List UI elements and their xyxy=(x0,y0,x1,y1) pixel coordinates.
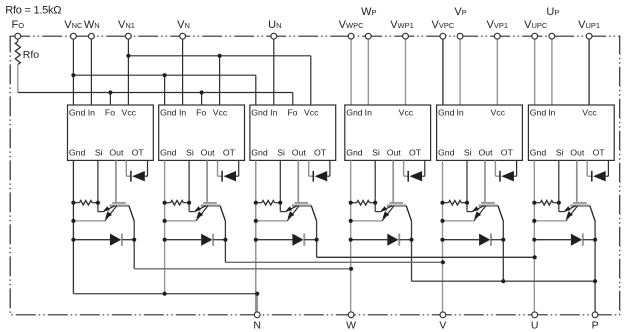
wire emitter cell 1 xyxy=(73,220,104,222)
svg-text:In: In xyxy=(548,107,555,117)
svg-text:VUP1: VUP1 xyxy=(578,19,600,31)
wire gate drive cell 5 xyxy=(484,160,486,202)
diode D6t OT xyxy=(587,160,608,181)
wire N bus xyxy=(73,293,257,295)
label VWP1 xyxy=(390,19,414,31)
svg-text:VWP1: VWP1 xyxy=(390,19,414,31)
wire WP vertical xyxy=(367,39,369,105)
wire Fo bus xyxy=(18,92,293,94)
svg-text:Gnd: Gnd xyxy=(438,107,455,117)
svg-text:Out: Out xyxy=(478,148,493,158)
svg-text:U: U xyxy=(531,320,539,332)
terminal VWP1 xyxy=(403,33,409,39)
svg-text:VN1: VN1 xyxy=(118,19,135,31)
svg-text:VVP1: VVP1 xyxy=(487,19,509,31)
label VNC xyxy=(64,19,83,31)
wire UP vertical xyxy=(551,39,553,105)
label V xyxy=(439,320,446,332)
wire gate drive cell 4 xyxy=(392,160,394,202)
wire Rfo to Fo bus xyxy=(17,65,19,93)
wire VN input xyxy=(182,39,184,105)
diode D3t OT xyxy=(309,160,330,181)
op-amp U5 gate driver (P-side) xyxy=(437,105,523,160)
wire gate drive cell 3 xyxy=(297,160,299,202)
svg-text:Si: Si xyxy=(556,148,564,158)
wire VVP1 vertical xyxy=(496,39,498,105)
terminal VVP1 xyxy=(494,33,500,39)
terminal N xyxy=(254,312,260,318)
wire Fo pin stub U2 xyxy=(201,93,203,106)
svg-text:VN: VN xyxy=(177,19,190,31)
svg-text:In: In xyxy=(88,107,95,117)
wire P bus (node P) xyxy=(412,280,596,282)
terminal VUP1 xyxy=(586,33,592,39)
terminal VN xyxy=(180,33,186,39)
wire V bus (node V) xyxy=(225,261,443,263)
wire UN input xyxy=(273,39,275,105)
svg-text:Gnd: Gnd xyxy=(160,107,177,117)
svg-text:In: In xyxy=(456,107,463,117)
junction VNC bus xyxy=(71,73,166,77)
terminal P xyxy=(592,312,598,318)
svg-text:N: N xyxy=(253,320,261,332)
junctions cell 1 xyxy=(71,201,136,242)
wire Si pin cell 2 xyxy=(189,160,195,211)
resistor R1 sense xyxy=(73,200,98,205)
diode D1 freewheel xyxy=(73,234,134,246)
svg-text:OT: OT xyxy=(132,148,145,158)
svg-text:Fo: Fo xyxy=(105,107,115,117)
svg-text:OT: OT xyxy=(223,148,236,158)
diode D4t OT xyxy=(404,160,425,181)
label N xyxy=(253,320,261,332)
wire collector cell 1 xyxy=(133,221,135,269)
terminal VNC xyxy=(71,33,77,39)
svg-text:Si: Si xyxy=(277,148,285,158)
wire N stub to terminal xyxy=(256,294,258,315)
svg-text:Vcc: Vcc xyxy=(490,107,505,117)
wire emitter cell 2 xyxy=(165,220,196,222)
svg-text:Gnd: Gnd xyxy=(160,148,177,158)
terminal UN xyxy=(271,33,277,39)
transistor Q4 IGBT xyxy=(381,203,412,221)
wire VP vertical xyxy=(459,39,461,105)
wire emitter cell 5 xyxy=(443,220,474,222)
wire gate drive cell 6 xyxy=(576,160,578,202)
svg-text:Gnd: Gnd xyxy=(346,148,363,158)
wire collector cell 2 xyxy=(224,221,226,262)
svg-text:V: V xyxy=(439,320,446,332)
svg-text:WP: WP xyxy=(361,6,376,18)
diode D5t OT xyxy=(495,160,516,181)
label WP xyxy=(361,6,376,18)
resistor R6 sense xyxy=(534,200,559,205)
terminal UP xyxy=(549,33,555,39)
svg-text:In: In xyxy=(270,107,277,117)
svg-text:VWPC: VWPC xyxy=(339,19,364,31)
svg-text:Gnd: Gnd xyxy=(346,107,363,117)
terminal VP xyxy=(457,33,463,39)
svg-text:In: In xyxy=(179,107,186,117)
transistor Q2 IGBT xyxy=(195,203,226,221)
label P xyxy=(592,320,599,332)
diode D2t OT xyxy=(218,160,239,181)
junctions cell 4 xyxy=(349,201,414,242)
wire collector cell 6 xyxy=(594,221,596,315)
svg-text:Vcc: Vcc xyxy=(582,107,597,117)
label VN1 xyxy=(118,19,135,31)
wire VVPC vertical xyxy=(442,39,444,105)
svg-text:VP: VP xyxy=(454,6,466,18)
resistor R5 sense xyxy=(443,200,468,205)
wire Si pin cell 1 xyxy=(98,160,104,211)
svg-text:UN: UN xyxy=(268,19,281,31)
junctions cell 2 xyxy=(163,201,228,242)
junction Fo bus xyxy=(108,90,203,94)
wire Gnd pin stub U3 xyxy=(255,75,257,105)
op-amp U6 gate driver (P-side) xyxy=(528,105,614,160)
terminal V xyxy=(440,312,446,318)
svg-text:Out: Out xyxy=(109,148,124,158)
wire emitter rail cell 3 xyxy=(255,160,257,314)
svg-text:Vcc: Vcc xyxy=(399,107,414,117)
label UP xyxy=(546,6,559,18)
svg-text:Gnd: Gnd xyxy=(251,107,268,117)
wire collector cell 4 xyxy=(411,221,413,281)
wire Si pin cell 6 xyxy=(559,160,565,211)
svg-text:Gnd: Gnd xyxy=(530,148,547,158)
wire VWP1 vertical xyxy=(405,39,407,105)
wire Si pin cell 3 xyxy=(280,160,286,211)
transistor Q6 IGBT xyxy=(564,203,595,221)
svg-text:VNC: VNC xyxy=(64,19,83,31)
wire VN1 vertical xyxy=(127,39,129,105)
wire gate drive cell 1 xyxy=(115,160,117,202)
wire emitter rail cell 1 xyxy=(72,160,74,293)
label VVPC xyxy=(432,19,455,31)
junction W bus xyxy=(349,267,353,271)
wire U bus (node U) xyxy=(317,256,535,258)
wire Fo terminal to Rfo xyxy=(17,39,19,42)
svg-text:WN: WN xyxy=(84,19,100,31)
label VN xyxy=(177,19,190,31)
wire collector cell 5 xyxy=(502,221,504,281)
diode D1t OT xyxy=(126,160,147,181)
wire W bus (node W) xyxy=(134,268,351,270)
svg-text:OT: OT xyxy=(314,148,327,158)
junction N bus xyxy=(163,292,260,296)
svg-text:Si: Si xyxy=(186,148,194,158)
op-amp U1 gate driver (N-side) xyxy=(68,105,154,160)
wire Gnd pin stub U2 xyxy=(164,75,166,105)
terminal Fo xyxy=(15,33,21,39)
wire emitter cell 3 xyxy=(256,220,287,222)
label WN xyxy=(84,19,100,31)
svg-text:UP: UP xyxy=(546,6,559,18)
svg-text:Rfo: Rfo xyxy=(23,49,40,61)
svg-text:Vcc: Vcc xyxy=(213,107,228,117)
transistor Q1 IGBT xyxy=(103,203,134,221)
svg-text:Fo: Fo xyxy=(287,107,297,117)
svg-text:Out: Out xyxy=(201,148,216,158)
label VWPC xyxy=(339,19,364,31)
junctions cell 5 xyxy=(440,201,505,242)
terminal VVPC xyxy=(440,33,446,39)
diode D3 freewheel xyxy=(256,234,317,246)
terminal U xyxy=(532,312,538,318)
wire WN input xyxy=(90,39,92,105)
wire VWPC vertical xyxy=(350,39,352,105)
label VUP1 xyxy=(578,19,600,31)
wire Fo pin stub U3 xyxy=(292,93,294,106)
label Rfo value xyxy=(5,5,61,17)
resistor R4 sense xyxy=(351,200,376,205)
label W xyxy=(346,320,356,332)
svg-text:Si: Si xyxy=(95,148,103,158)
svg-text:OT: OT xyxy=(501,148,514,158)
diode D6 freewheel xyxy=(534,234,595,246)
terminal VN1 xyxy=(125,33,131,39)
resistor R2 sense xyxy=(165,200,190,205)
op-amp U3 gate driver (N-side) xyxy=(250,105,336,160)
transistor Q5 IGBT xyxy=(472,203,503,221)
label UN xyxy=(268,19,281,31)
svg-text:In: In xyxy=(365,107,372,117)
svg-text:Out: Out xyxy=(570,148,585,158)
terminal W xyxy=(348,312,354,318)
svg-text:FO: FO xyxy=(12,19,25,31)
wire Vcc pin stub U2 xyxy=(219,56,221,105)
wire emitter rail cell 4 xyxy=(350,160,352,314)
wire Si pin cell 4 xyxy=(375,160,381,211)
transistor Q3 IGBT xyxy=(286,203,317,221)
svg-text:Gnd: Gnd xyxy=(69,107,86,117)
resistor R3 sense xyxy=(256,200,280,205)
wire VNC bus xyxy=(73,74,255,76)
svg-text:Gnd: Gnd xyxy=(69,148,86,158)
label VUPC xyxy=(524,19,548,31)
wire collector cell 3 xyxy=(316,221,318,257)
wire VNC vertical xyxy=(72,39,74,105)
wire emitter cell 6 xyxy=(534,220,565,222)
wire VN1 bus xyxy=(128,55,310,57)
svg-text:Fo: Fo xyxy=(196,107,206,117)
junction U bus xyxy=(533,255,537,259)
svg-text:Gnd: Gnd xyxy=(438,148,455,158)
junctions cell 3 xyxy=(254,201,319,242)
svg-text:Gnd: Gnd xyxy=(251,148,268,158)
svg-text:Rfo = 1.5kΩ: Rfo = 1.5kΩ xyxy=(5,5,61,17)
label Fo xyxy=(12,19,25,31)
label VVP1 xyxy=(487,19,509,31)
wire VUP1 vertical xyxy=(588,39,590,105)
svg-text:VVPC: VVPC xyxy=(432,19,455,31)
wire Fo pin stub U1 xyxy=(109,93,111,106)
terminal VUPC xyxy=(532,33,538,39)
svg-text:W: W xyxy=(346,320,356,332)
svg-text:Si: Si xyxy=(372,148,380,158)
wire Vcc pin stub U3 xyxy=(310,56,312,105)
svg-text:Out: Out xyxy=(292,148,307,158)
svg-text:Gnd: Gnd xyxy=(530,107,547,117)
wire Si pin cell 5 xyxy=(467,160,473,211)
junction V bus xyxy=(441,260,445,264)
diode D4 freewheel xyxy=(351,234,412,246)
junctions cell 6 xyxy=(532,201,597,242)
svg-text:OT: OT xyxy=(409,148,422,158)
label Rfo xyxy=(23,49,40,61)
terminal WN xyxy=(89,33,95,39)
svg-text:VUPC: VUPC xyxy=(524,19,548,31)
svg-text:Vcc: Vcc xyxy=(304,107,319,117)
junction P bus xyxy=(501,279,597,283)
terminal VWPC xyxy=(348,33,354,39)
svg-text:OT: OT xyxy=(593,148,606,158)
wire emitter rail cell 5 xyxy=(442,160,444,314)
svg-text:Vcc: Vcc xyxy=(122,107,137,117)
junction VN1 bus xyxy=(126,54,221,58)
svg-text:P: P xyxy=(592,320,599,332)
diode D2 freewheel xyxy=(165,234,226,246)
resistor Rfo xyxy=(15,42,20,65)
label VP xyxy=(454,6,466,18)
wire VUPC vertical xyxy=(534,39,536,105)
wire emitter cell 4 xyxy=(351,220,382,222)
svg-text:Si: Si xyxy=(464,148,472,158)
svg-text:Out: Out xyxy=(387,148,402,158)
terminal WP xyxy=(365,33,371,39)
op-amp U2 gate driver (N-side) xyxy=(159,105,245,160)
label U xyxy=(531,320,539,332)
wire emitter rail cell 6 xyxy=(533,160,535,314)
op-amp U4 gate driver (P-side) xyxy=(345,105,431,160)
wire gate drive cell 2 xyxy=(206,160,208,202)
diode D5 freewheel xyxy=(443,234,504,246)
wire emitter rail cell 2 xyxy=(164,160,166,293)
